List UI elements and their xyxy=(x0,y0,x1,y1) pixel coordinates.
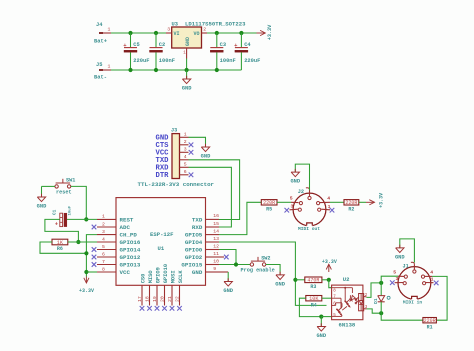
svg-text:19: 19 xyxy=(152,296,158,302)
svg-text:4: 4 xyxy=(430,270,433,276)
ground symbol near J3 xyxy=(205,144,207,148)
capacitor C2 100nF xyxy=(155,33,157,47)
svg-text:R4: R4 xyxy=(311,302,317,308)
svg-text:VO: VO xyxy=(193,31,199,37)
connector J3 TTL-232R header xyxy=(172,134,180,179)
svg-text:GPIO9: GPIO9 xyxy=(155,267,161,283)
U1 pin 11 GPIO2 xyxy=(206,256,219,258)
U1 pin 20 GPIO10 xyxy=(164,285,166,305)
wire J3 RXD to U1 pin15 xyxy=(189,167,232,227)
U1 pin 6 GPIO12 no-connect X xyxy=(92,255,97,260)
wire J3 TXD to U1 pin16 xyxy=(189,160,240,220)
wire J1 pin2 to ground xyxy=(400,239,415,263)
resistor R1 220R xyxy=(423,318,437,323)
U1 pin 16 TXD xyxy=(206,218,219,220)
regulator U3 LD1117S50TR_SOT223 xyxy=(172,27,202,48)
svg-text:D1: D1 xyxy=(374,298,379,304)
U1 pin 3 CH_PD xyxy=(97,234,116,236)
svg-text:2: 2 xyxy=(102,221,105,227)
connector J5 Bat- pin 1 xyxy=(99,69,103,71)
U1 pin 1 REST xyxy=(97,218,116,220)
supply +3.3V arrow below VCC column xyxy=(85,277,87,284)
J3 pin 6 no-connect X xyxy=(189,173,194,178)
ground symbol above J1 xyxy=(399,245,401,249)
wire J3 pin1 to ground xyxy=(189,137,206,147)
junction bottom rail at C5 xyxy=(128,68,132,72)
J3 pin 2 no-connect X xyxy=(189,143,194,148)
svg-text:7: 7 xyxy=(102,259,105,265)
U3 pin 2 VO stub xyxy=(202,32,208,34)
svg-text:100nF: 100nF xyxy=(220,58,236,64)
svg-text:470R: 470R xyxy=(307,278,319,284)
supply +3.3V arrow right of regulator xyxy=(257,32,266,34)
junction top rail at C2 xyxy=(154,31,158,35)
J2 pin 5 stub xyxy=(291,201,299,203)
svg-text:R6: R6 xyxy=(57,246,63,252)
svg-text:1: 1 xyxy=(184,132,187,138)
U1 pin 2 ADC xyxy=(97,226,116,228)
svg-text:12: 12 xyxy=(213,243,219,249)
wire GPIO5 pin14 up to R5 xyxy=(219,202,261,234)
U1 pin 12 GPIO0 xyxy=(206,249,219,251)
wire R2 to +3.3V xyxy=(359,201,366,203)
U2 internal LED box xyxy=(359,294,364,311)
svg-text:1: 1 xyxy=(431,277,434,283)
svg-text:GND: GND xyxy=(395,254,405,260)
supply +3.3V arrow above R3 xyxy=(328,264,330,272)
U2 internal transistor Q1 xyxy=(345,301,349,305)
svg-text:CS0: CS0 xyxy=(140,274,146,284)
wire U3 GND to bottom rail xyxy=(186,59,188,71)
wire D1 node up to J1 pin5 xyxy=(381,276,398,283)
svg-text:MIDI out: MIDI out xyxy=(298,226,320,232)
svg-text:REST: REST xyxy=(120,216,134,223)
IC U1 ESP-12F body xyxy=(116,198,206,286)
svg-text:J4: J4 xyxy=(96,22,103,28)
svg-text:+3.3V: +3.3V xyxy=(322,259,337,265)
svg-text:R2: R2 xyxy=(348,206,354,212)
junction +3.3V column at R6 loop xyxy=(84,251,88,255)
svg-text:11: 11 xyxy=(213,251,219,257)
svg-text:GPIO5: GPIO5 xyxy=(185,232,203,239)
U1 pin 8 VCC xyxy=(97,271,116,273)
svg-text:3: 3 xyxy=(396,276,399,282)
wire +3.3V column CH_PD VCC xyxy=(86,235,97,277)
junction +3.3V column at VCC pin8 xyxy=(84,270,88,274)
resistor R2 220R xyxy=(344,200,359,205)
svg-text:GND: GND xyxy=(223,288,233,294)
svg-text:3: 3 xyxy=(102,229,105,235)
wire bottom rail Bat- xyxy=(111,69,241,71)
U2 pin 2 stub xyxy=(364,296,367,298)
wire J1 pin4 down right side to R1 xyxy=(432,276,447,320)
svg-text:ESP-12F: ESP-12F xyxy=(150,231,174,238)
svg-text:J2: J2 xyxy=(298,189,304,195)
wire +3.3V node to U2 pin8 xyxy=(329,280,332,288)
wire GND drop below rail xyxy=(186,70,188,79)
svg-text:GPIO14: GPIO14 xyxy=(120,247,141,254)
wire SW2 right to ground xyxy=(266,265,280,275)
J1 pin 3 stub no-connect xyxy=(395,282,404,284)
J3 pin 1 GND xyxy=(180,136,189,138)
wire C1 right to REST node and U1 pin1 xyxy=(67,218,97,220)
wire SW1 right down to REST node xyxy=(71,186,87,219)
svg-text:16: 16 xyxy=(213,213,219,219)
junction bottom rail at C3 xyxy=(215,68,219,72)
wire U1 pin9 GND to ground xyxy=(219,271,228,273)
connector J4 Bat+ pin 1 xyxy=(99,32,103,34)
ground symbol under U3 xyxy=(186,76,188,80)
svg-text:17: 17 xyxy=(137,296,143,302)
svg-text:100nF: 100nF xyxy=(159,58,175,64)
wire GPIO0 pin12 down to prog node xyxy=(219,250,236,265)
svg-text:VCC: VCC xyxy=(120,269,131,276)
wire U2 pin2 jog to D1 top node xyxy=(367,283,382,298)
ground symbol above J2 xyxy=(294,169,296,173)
svg-text:ADC: ADC xyxy=(120,224,131,231)
svg-text:1K: 1K xyxy=(57,240,64,246)
U2 light arrows from LED xyxy=(355,297,359,304)
wire J2 pin4 to R2 xyxy=(330,201,344,203)
U1 pin 9 GND xyxy=(206,271,219,273)
switch SW2 Prog enable xyxy=(250,263,253,266)
U1 pin 2 ADC no-connect X xyxy=(92,225,97,230)
svg-text:Bat+: Bat+ xyxy=(94,39,107,45)
svg-text:LD1117S50TR_SOT223: LD1117S50TR_SOT223 xyxy=(185,20,246,27)
J1 pin 2 stub top xyxy=(413,264,415,269)
J2 pin 2 stub top xyxy=(309,190,311,196)
svg-text:J3: J3 xyxy=(171,127,177,133)
U1 pin 21 MOSI xyxy=(171,285,173,305)
svg-text:R5: R5 xyxy=(266,206,272,212)
wire R3 right to +3.3V node xyxy=(322,279,329,281)
svg-text:22: 22 xyxy=(174,296,180,302)
ground symbol under SW1 xyxy=(41,194,43,198)
svg-text:6: 6 xyxy=(184,169,187,175)
svg-text:J5: J5 xyxy=(96,62,102,68)
svg-text:SW1: SW1 xyxy=(66,178,75,184)
svg-text:GPIO15: GPIO15 xyxy=(181,262,202,269)
svg-text:MISO: MISO xyxy=(148,270,154,284)
J3 pin 3 VCC xyxy=(180,151,189,153)
svg-text:220uF: 220uF xyxy=(133,58,149,64)
resistor R3 470R xyxy=(305,277,322,283)
J2 pin 3 stub no-connect xyxy=(290,208,298,211)
wire R4 right to U2 pin7 xyxy=(322,297,332,299)
wire GPIO4 pin13 to opto output xyxy=(219,242,327,305)
svg-text:GND: GND xyxy=(316,333,326,339)
junction top rail at C5 xyxy=(128,31,132,35)
svg-text:5: 5 xyxy=(333,314,336,318)
connector J2 MIDI out DIN xyxy=(293,193,326,226)
svg-text:1: 1 xyxy=(108,26,111,32)
svg-text:SW2: SW2 xyxy=(261,256,270,262)
J3 pin 5 RXD xyxy=(180,166,189,168)
svg-text:U2: U2 xyxy=(343,276,350,283)
svg-text:U3: U3 xyxy=(172,21,178,27)
svg-text:GPIO12: GPIO12 xyxy=(120,254,141,261)
svg-text:5: 5 xyxy=(184,162,187,168)
junction GPIO4 at R3 xyxy=(293,278,297,282)
svg-text:4: 4 xyxy=(327,196,330,202)
svg-text:4: 4 xyxy=(102,236,105,242)
ground symbol under opto xyxy=(320,323,322,327)
svg-text:13: 13 xyxy=(213,236,219,242)
svg-text:reset: reset xyxy=(56,190,72,196)
svg-text:5: 5 xyxy=(393,270,396,276)
svg-text:10K: 10K xyxy=(309,296,319,302)
svg-text:CH_PD: CH_PD xyxy=(120,232,138,239)
capacitor C5 220uF xyxy=(130,33,132,47)
junction bottom rail at C2 xyxy=(154,68,158,72)
svg-text:Prog enable: Prog enable xyxy=(241,268,275,274)
resistor R4 10K xyxy=(306,296,322,301)
svg-text:GND: GND xyxy=(201,153,211,159)
U3 GND pin stub xyxy=(186,48,188,59)
U1 pin 15 RXD xyxy=(206,226,219,228)
svg-text:DTR: DTR xyxy=(156,172,170,180)
U1 pin 7 GPIO13 no-connect X xyxy=(92,262,97,267)
supply +3.3V arrow right of R2 xyxy=(366,201,375,203)
svg-text:2: 2 xyxy=(203,26,206,32)
svg-text:GND: GND xyxy=(192,269,203,276)
svg-text:Bat-: Bat- xyxy=(94,74,107,80)
svg-text:20: 20 xyxy=(159,296,165,302)
ground symbol under U1 pin9 xyxy=(227,278,229,282)
svg-text:C2: C2 xyxy=(159,42,165,48)
optocoupler U2 6N138 body xyxy=(332,285,363,320)
svg-text:GPIO4: GPIO4 xyxy=(185,239,203,246)
svg-text:+3.3V: +3.3V xyxy=(267,24,273,40)
svg-text:GPIO16: GPIO16 xyxy=(120,239,141,246)
svg-text:R3: R3 xyxy=(310,284,316,290)
capacitor C4 220uF xyxy=(240,33,242,47)
svg-text:J1: J1 xyxy=(403,263,409,269)
wire top rail Bat+ to U3 VI xyxy=(111,32,166,34)
svg-text:8: 8 xyxy=(333,290,336,294)
svg-text:C3: C3 xyxy=(220,42,226,48)
svg-text:10: 10 xyxy=(213,258,219,264)
svg-text:1: 1 xyxy=(108,63,111,69)
wire D1 anode xyxy=(380,283,382,296)
svg-text:+3.3V: +3.3V xyxy=(378,193,384,208)
wire VO output rail to +3.3V xyxy=(207,32,257,34)
svg-text:TTL-232R-3V3 connector: TTL-232R-3V3 connector xyxy=(138,181,215,188)
svg-text:21: 21 xyxy=(167,296,173,302)
U1 pin 7 GPIO13 xyxy=(97,264,116,266)
ground symbol under SW2 xyxy=(279,272,281,276)
connector J1 MIDI in DIN xyxy=(398,267,431,300)
J1 pin 1 stub no-connect xyxy=(425,282,433,284)
svg-text:GND: GND xyxy=(185,37,191,46)
wire VCC pin8 to column xyxy=(86,271,97,273)
wire U2 pin3 jog to D1 bottom node xyxy=(367,309,382,313)
svg-text:GPIO0: GPIO0 xyxy=(185,247,203,254)
svg-text:220uF: 220uF xyxy=(244,58,260,64)
svg-text:GND: GND xyxy=(182,85,192,91)
svg-text:U1: U1 xyxy=(158,245,165,252)
svg-text:R1: R1 xyxy=(427,324,433,330)
wire R6 right to U1 pin4 xyxy=(68,241,97,243)
svg-text:+: + xyxy=(55,222,58,228)
svg-text:GND: GND xyxy=(275,281,285,287)
junction output rail at C3 xyxy=(215,31,219,35)
svg-text:14: 14 xyxy=(213,228,219,234)
J1 pin 5 stub xyxy=(398,275,404,277)
svg-text:18: 18 xyxy=(144,296,150,302)
J1 pin 4 stub xyxy=(424,275,432,277)
junction output rail at C4 xyxy=(239,31,243,35)
U1 pin 11 GPIO2 no-connect X xyxy=(219,256,224,258)
J3 pin 6 DTR xyxy=(180,174,189,176)
junction D1 top node xyxy=(379,281,383,285)
wire R3 left xyxy=(295,279,304,281)
svg-text:3: 3 xyxy=(365,306,368,310)
capacitor C3 100nF xyxy=(216,33,218,47)
junction bottom rail at U3 GND xyxy=(185,68,189,72)
U2 internal vcc rail xyxy=(332,287,353,289)
svg-text:C4: C4 xyxy=(244,42,251,48)
U3 pin 3 VI stub xyxy=(166,32,172,34)
U1 pin 10 GPIO15 xyxy=(206,264,219,266)
U2 pin 3 stub xyxy=(364,308,367,310)
J3 pin 3 no-connect X xyxy=(189,150,194,155)
svg-text:2: 2 xyxy=(184,139,187,145)
svg-text:C5: C5 xyxy=(133,42,139,48)
resistor R5 220R xyxy=(261,200,277,205)
junction prog node xyxy=(234,262,238,266)
svg-text:8: 8 xyxy=(102,266,105,272)
U1 pin 19 GPIO9 xyxy=(156,285,158,305)
wire ground node to U2 pin5 xyxy=(321,316,331,318)
svg-text:C1: C1 xyxy=(52,209,57,215)
svg-text:3: 3 xyxy=(184,147,187,153)
svg-text:6: 6 xyxy=(102,251,105,257)
J3 pin 2 CTS xyxy=(180,144,189,146)
wire R4 left loop to ground node xyxy=(299,298,321,316)
svg-text:6N138: 6N138 xyxy=(339,322,356,329)
wire SW1 left to ground xyxy=(42,185,55,187)
U1 pin 22 SCLK xyxy=(179,285,181,305)
junction D1 bottom node xyxy=(379,311,383,315)
wire C1 left loop to R6 right / GPIO16 xyxy=(45,219,79,242)
wire D1 cathode xyxy=(380,302,382,313)
svg-text:220R: 220R xyxy=(345,200,357,206)
junction opto ground node xyxy=(319,315,323,319)
capacitor C1 10uF polarized xyxy=(60,213,63,226)
J2 pin 1 stub no-connect xyxy=(321,208,330,211)
U1 pin 14 GPIO5 xyxy=(206,234,219,236)
switch SW1 reset xyxy=(55,185,58,188)
svg-text:TXD: TXD xyxy=(192,216,203,223)
J2 pin 4 stub xyxy=(320,201,330,203)
resistor R6 1K xyxy=(52,239,68,245)
svg-text:SCLK: SCLK xyxy=(178,270,184,284)
svg-text:10uF: 10uF xyxy=(69,205,73,215)
wire ground node down xyxy=(320,317,322,327)
U1 pin 5 GPIO14 no-connect X xyxy=(92,247,97,252)
junction R6 right at GPIO16 wire xyxy=(76,240,80,244)
svg-text:GPIO2: GPIO2 xyxy=(185,254,203,261)
svg-text:GND: GND xyxy=(37,203,47,209)
U1 pin 18 MISO xyxy=(149,285,151,305)
U1 pin 17 CS0 xyxy=(141,285,143,305)
svg-text:7: 7 xyxy=(333,295,336,299)
svg-text:1: 1 xyxy=(183,51,186,55)
J3 pin 4 TXD xyxy=(180,159,189,161)
svg-text:1: 1 xyxy=(328,204,331,210)
wire R5 to J2 pin5 xyxy=(277,201,291,203)
wire GPIO15 pin10 to SW2 xyxy=(219,264,250,266)
svg-text:GPIO13: GPIO13 xyxy=(120,262,141,269)
junction R3 +3.3V node xyxy=(327,278,331,282)
svg-text:MOSI: MOSI xyxy=(170,270,176,283)
svg-text:MIDI in: MIDI in xyxy=(403,299,423,305)
U1 pin 6 GPIO12 xyxy=(97,256,116,258)
svg-text:VI: VI xyxy=(174,31,180,37)
svg-text:+3.3V: +3.3V xyxy=(79,288,94,294)
svg-text:3: 3 xyxy=(167,26,170,32)
svg-text:3: 3 xyxy=(291,203,294,209)
wire R6 left loop to +3.3V column xyxy=(40,242,86,253)
svg-text:5: 5 xyxy=(290,196,293,202)
svg-text:5: 5 xyxy=(102,244,105,250)
U2 internal photodiode xyxy=(348,295,355,303)
wire J2 pin2 to ground xyxy=(295,164,309,190)
svg-text:9: 9 xyxy=(213,266,216,272)
svg-text:15: 15 xyxy=(213,221,219,227)
svg-text:220R: 220R xyxy=(263,200,275,206)
U1 pin 13 GPIO4 xyxy=(206,241,219,243)
svg-text:GPIO10: GPIO10 xyxy=(163,264,169,283)
junction REST node xyxy=(84,217,88,221)
U1 pin 5 GPIO14 xyxy=(97,249,116,251)
svg-text:RXD: RXD xyxy=(192,224,203,231)
svg-text:220R: 220R xyxy=(424,318,436,324)
U2 internal transistor Q2 xyxy=(336,309,340,313)
svg-text:1: 1 xyxy=(102,214,105,220)
diode D1 xyxy=(378,296,385,302)
U2 internal base and emitter connections xyxy=(332,297,341,299)
svg-text:4: 4 xyxy=(184,154,187,160)
svg-text:GND: GND xyxy=(290,179,300,185)
U1 pin 4 GPIO16 xyxy=(97,241,116,243)
wire D1 node down to R1 row xyxy=(381,313,423,320)
